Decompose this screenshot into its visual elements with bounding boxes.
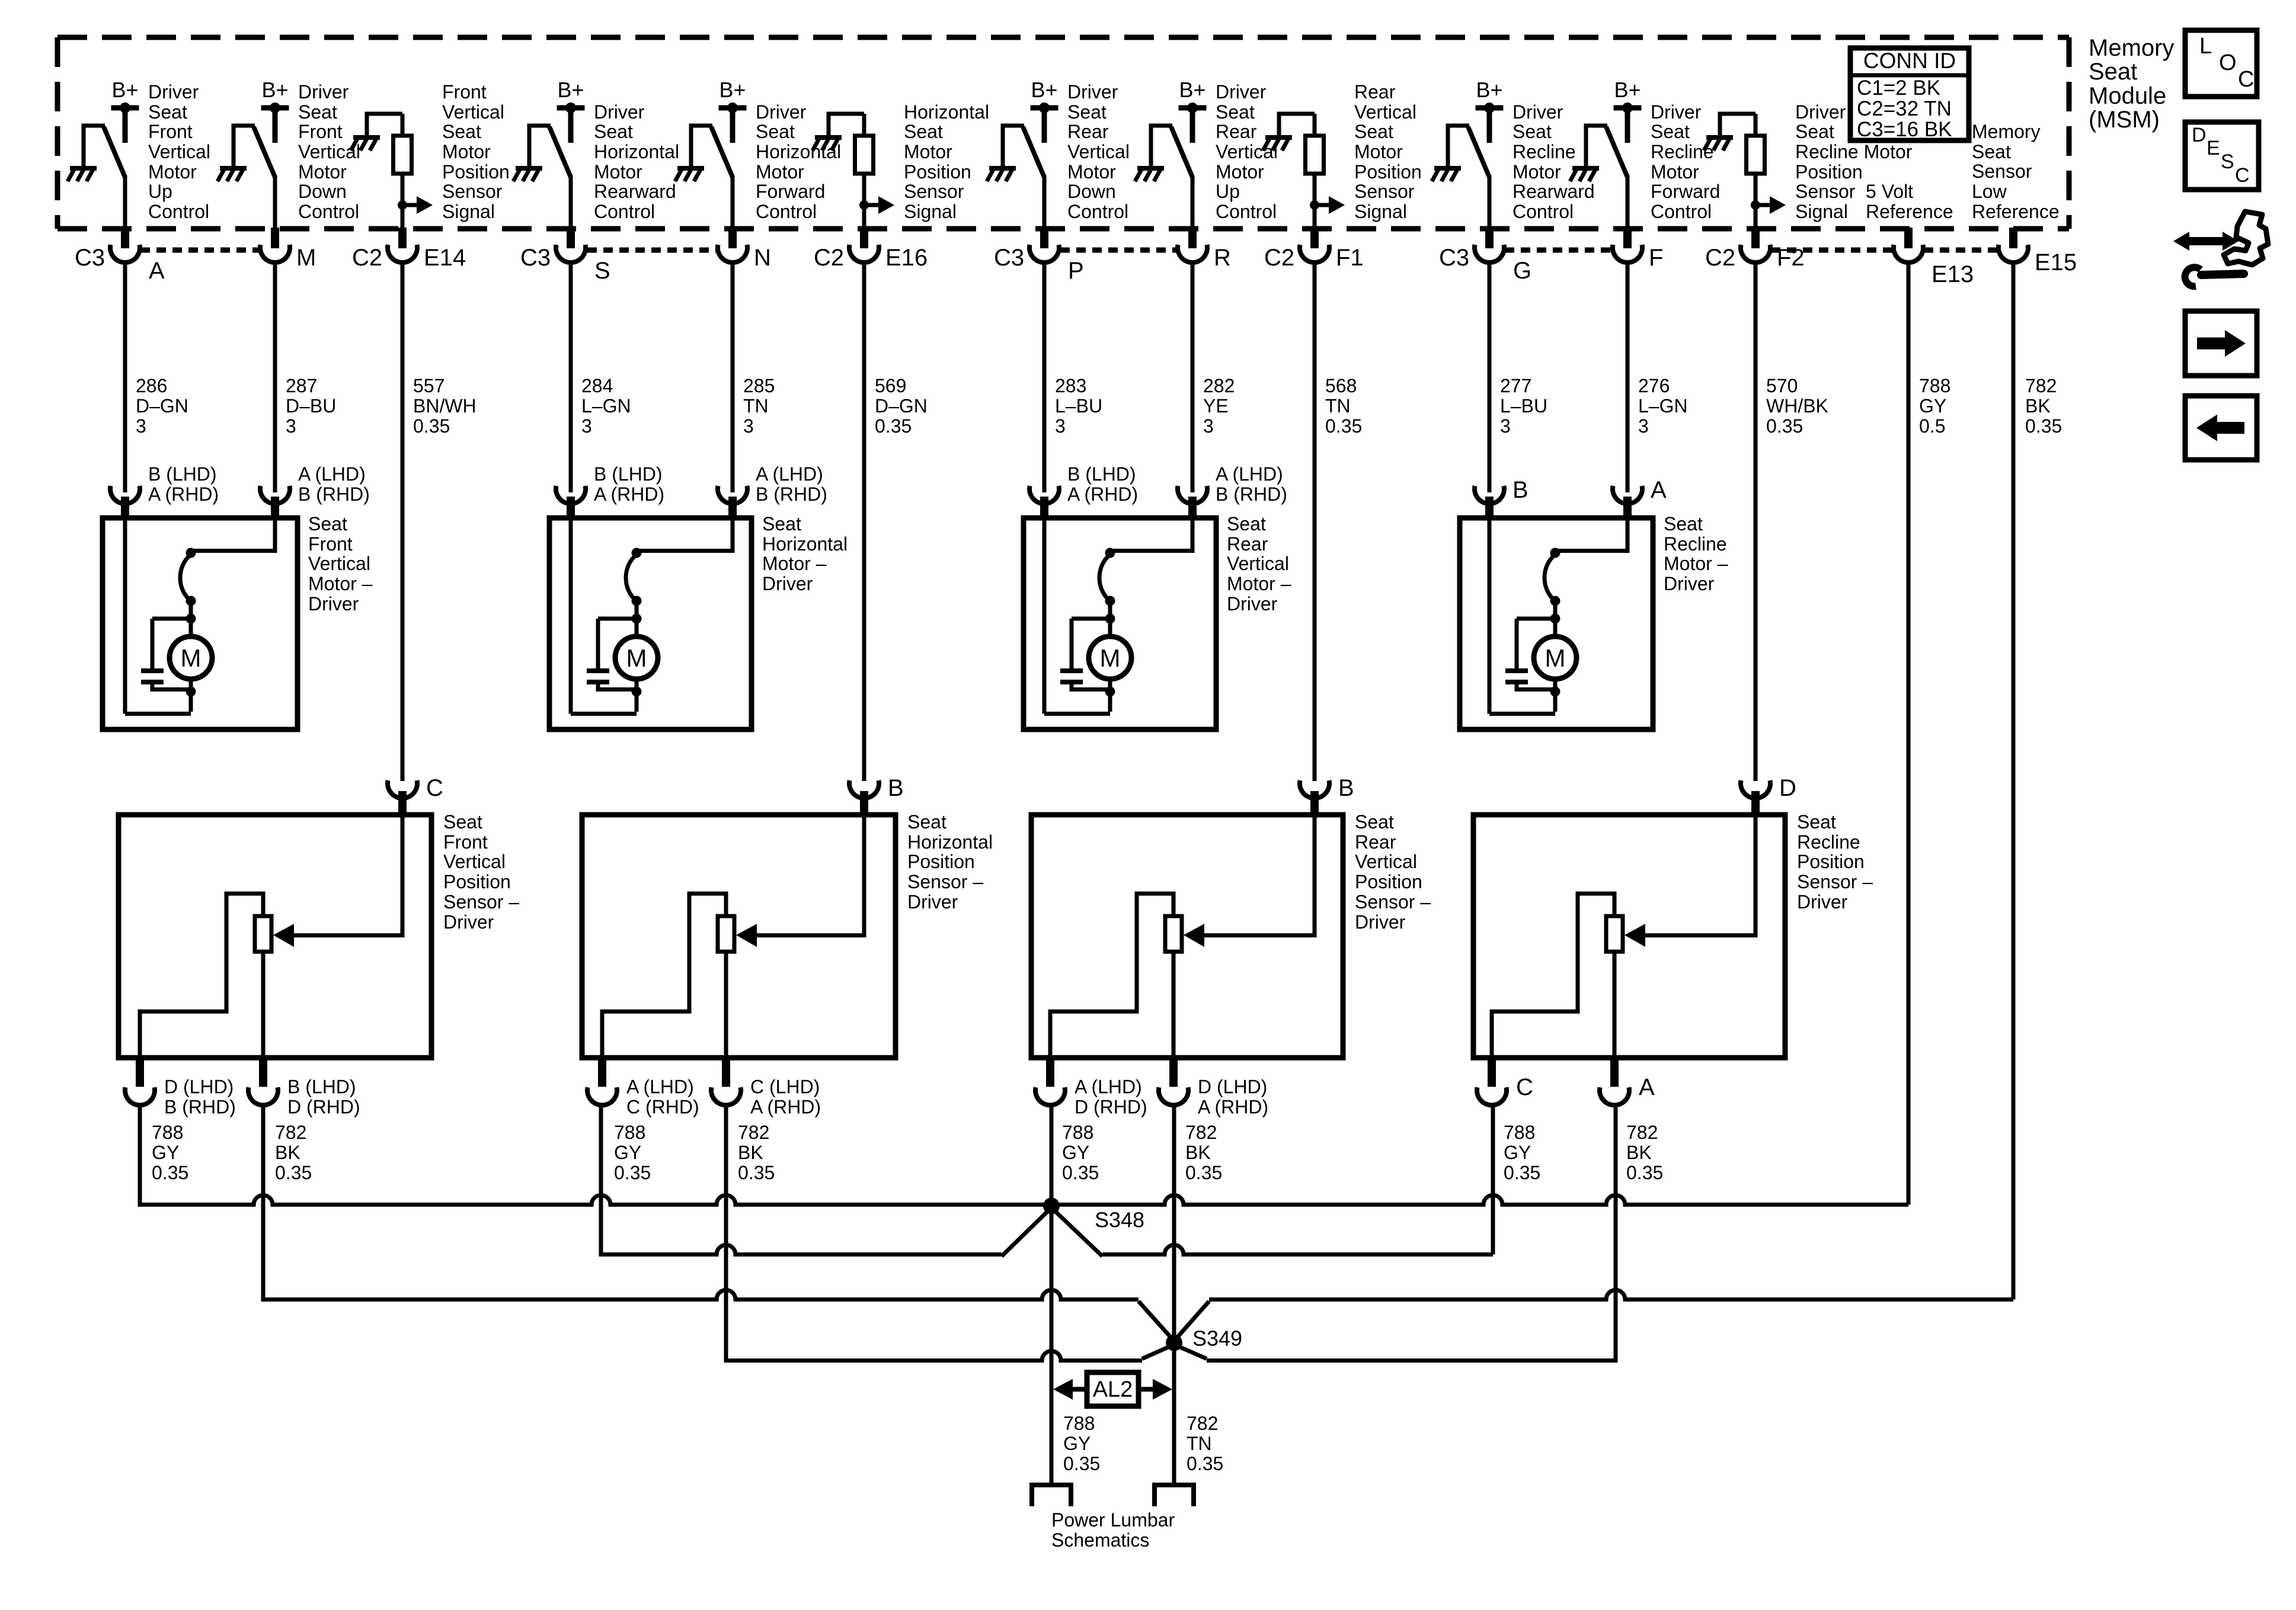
- svg-text:Down: Down: [298, 181, 347, 202]
- svg-text:Power Lumbar: Power Lumbar: [1051, 1509, 1175, 1531]
- connector pin E15: [2009, 228, 2017, 248]
- svg-text:Control: Control: [298, 201, 359, 222]
- capacitor (motor noise suppression, Seat Front Vertical Motor - Driver): [141, 668, 164, 673]
- svg-text:BK: BK: [738, 1142, 763, 1163]
- svg-text:B (LHD): B (LHD): [148, 463, 217, 485]
- svg-text:282: 282: [1203, 375, 1235, 396]
- svg-text:Driver: Driver: [1355, 911, 1406, 933]
- svg-text:3: 3: [286, 415, 296, 437]
- svg-text:Seat: Seat: [907, 811, 946, 833]
- svg-text:Driver: Driver: [1795, 101, 1846, 123]
- svg-text:M: M: [181, 644, 202, 672]
- svg-text:A (RHD): A (RHD): [750, 1096, 821, 1118]
- svg-text:Seat: Seat: [1354, 121, 1393, 142]
- inline connector pin B (LHD)/D (RHD) (sensor signal low): [259, 1058, 267, 1087]
- svg-text:Seat: Seat: [1795, 121, 1834, 142]
- svg-text:Driver: Driver: [1651, 101, 1702, 123]
- svg-text:570: 570: [1766, 375, 1798, 396]
- off-page connector (788 GY) Power Lumbar: [1032, 1485, 1071, 1506]
- wire group2 GY to bus: [599, 1103, 603, 1205]
- svg-text:Recline: Recline: [1797, 831, 1860, 853]
- svg-text:CONN ID: CONN ID: [1863, 49, 1956, 73]
- inline connector pin A (LHD)/B (RHD) (motor right): [718, 486, 747, 504]
- svg-text:B+: B+: [1614, 78, 1641, 102]
- svg-text:Signal: Signal: [904, 201, 957, 222]
- svg-text:Control: Control: [1216, 201, 1277, 222]
- ground for position sensor buffer (column F1): [1265, 135, 1292, 140]
- icon back arrow box: [2185, 396, 2257, 460]
- node sensor signal tap E16: [859, 200, 869, 210]
- svg-text:Motor: Motor: [1354, 141, 1403, 162]
- svg-text:B: B: [1512, 477, 1528, 503]
- svg-text:B+: B+: [1031, 78, 1057, 102]
- svg-text:0.35: 0.35: [413, 415, 450, 437]
- svg-text:Vertical: Vertical: [298, 141, 360, 162]
- inline connector pin A (LHD)/C (RHD) (sensor low ref): [598, 1058, 606, 1087]
- wire S349 vertical (group3 BK / 782 TN down): [1172, 1103, 1176, 1483]
- svg-text:Sensor: Sensor: [442, 181, 503, 202]
- svg-text:Sensor: Sensor: [1972, 161, 2032, 182]
- inline connector pin C (position sensor wiper): [388, 780, 417, 798]
- wire 285 TN 3 (pin N to motor): [731, 261, 735, 492]
- svg-text:Control: Control: [1651, 201, 1712, 222]
- svg-text:3: 3: [1055, 415, 1066, 437]
- svg-text:Seat: Seat: [298, 101, 337, 123]
- connector C3/C2 dotted pin row line: [140, 248, 1998, 253]
- svg-text:Front: Front: [298, 121, 343, 142]
- inline connector pin D (LHD)/B (RHD) (sensor low ref): [136, 1058, 144, 1087]
- wire group3 GY to splice S348: [1050, 1103, 1054, 1206]
- svg-text:Motor: Motor: [904, 141, 952, 162]
- wire 788 GY 0.5 (E13 to S348 bus): [1907, 261, 1911, 1205]
- svg-text:Horizontal: Horizontal: [756, 141, 841, 162]
- svg-text:3: 3: [1203, 415, 1214, 437]
- inline connector pin C (LHD)/A (RHD) (sensor signal low): [722, 1058, 730, 1087]
- wire resistor to connector F1: [1313, 174, 1317, 230]
- svg-text:Motor: Motor: [1651, 161, 1699, 183]
- svg-text:C2: C2: [814, 245, 844, 271]
- svg-text:0.35: 0.35: [1062, 1162, 1099, 1183]
- svg-text:B (RHD): B (RHD): [164, 1096, 236, 1118]
- wire BK branch group2 (to bus4 left): [724, 1103, 728, 1361]
- svg-text:782: 782: [275, 1122, 306, 1143]
- svg-text:(MSM): (MSM): [2089, 107, 2160, 133]
- wire BK bus3 (S349) left: [261, 1205, 266, 1299]
- motor box: Seat Rear Vertical Motor - Driver: [1024, 518, 1216, 729]
- position sensor box: Seat Horizontal Position Sensor - Driver: [582, 815, 896, 1058]
- svg-text:Seat: Seat: [1797, 811, 1836, 833]
- svg-text:Driver: Driver: [1664, 573, 1715, 594]
- switch contact with ground return (pin G): [1432, 126, 1489, 230]
- svg-text:D (LHD): D (LHD): [1198, 1076, 1267, 1097]
- svg-text:Motor –: Motor –: [762, 553, 827, 574]
- svg-text:0.35: 0.35: [1766, 415, 1803, 437]
- svg-text:Position: Position: [442, 161, 510, 183]
- svg-text:C2: C2: [352, 245, 382, 271]
- position sensor box: Seat Recline Position Sensor - Driver: [1473, 815, 1785, 1058]
- icon LOC box: [2185, 30, 2257, 97]
- inline connector pin A (LHD)/B (RHD) (motor right): [1178, 486, 1207, 504]
- connector AL2 (in-line): [1087, 1372, 1139, 1406]
- svg-text:M: M: [296, 245, 316, 271]
- svg-text:Seat: Seat: [2089, 59, 2137, 85]
- svg-text:GY: GY: [1504, 1142, 1531, 1163]
- svg-text:Signal: Signal: [1354, 201, 1407, 222]
- svg-text:Driver: Driver: [1512, 101, 1563, 123]
- capacitor (motor noise suppression, Seat Rear Vertical Motor - Driver): [1060, 668, 1083, 673]
- svg-text:L–GN: L–GN: [1638, 395, 1688, 417]
- svg-text:Vertical: Vertical: [1355, 851, 1417, 872]
- icon service tool (double arrow, part outline, wrench): [2173, 212, 2268, 286]
- svg-text:0.35: 0.35: [152, 1162, 188, 1183]
- svg-text:788: 788: [1504, 1122, 1535, 1143]
- off-page connector (782 TN) Power Lumbar: [1155, 1485, 1194, 1506]
- svg-text:P: P: [1068, 258, 1084, 284]
- svg-text:E16: E16: [885, 245, 928, 271]
- svg-text:C3: C3: [520, 245, 551, 271]
- svg-text:G: G: [1513, 258, 1531, 284]
- svg-text:BN/WH: BN/WH: [413, 395, 477, 417]
- svg-text:788: 788: [614, 1122, 645, 1143]
- svg-text:BK: BK: [275, 1142, 300, 1163]
- svg-text:Schematics: Schematics: [1051, 1529, 1149, 1551]
- svg-text:Rearward: Rearward: [594, 181, 676, 202]
- svg-text:Sensor –: Sensor –: [907, 871, 983, 892]
- inline connector pin D (position sensor wiper): [1741, 780, 1770, 798]
- connector pin F1 (C2): [1310, 228, 1319, 248]
- connector pin P (C3): [1040, 228, 1048, 248]
- wire GY bus (S348) horizontal: [140, 1195, 1908, 1205]
- svg-text:Vertical: Vertical: [1067, 141, 1130, 162]
- svg-text:Control: Control: [148, 201, 209, 222]
- CONN ID table box: [1850, 48, 1969, 140]
- svg-text:B+: B+: [1179, 78, 1205, 102]
- svg-text:D–BU: D–BU: [286, 395, 336, 417]
- connector pin G (C3): [1485, 228, 1494, 248]
- svg-text:E13: E13: [1932, 261, 1974, 287]
- svg-text:Seat: Seat: [1664, 513, 1703, 534]
- connector pin R: [1188, 228, 1197, 248]
- wire group1 GY to bus: [138, 1103, 142, 1207]
- svg-text:Sensor: Sensor: [1795, 181, 1856, 202]
- svg-text:276: 276: [1638, 375, 1670, 396]
- inline connector pin B (motor left): [1475, 486, 1504, 504]
- svg-text:Sensor –: Sensor –: [1797, 871, 1873, 892]
- svg-text:Horizontal: Horizontal: [907, 831, 993, 853]
- inline connector pin B (position sensor wiper): [849, 780, 879, 798]
- ground for position sensor buffer (column E14): [353, 135, 380, 140]
- motor box: Seat Recline Motor - Driver: [1460, 518, 1653, 729]
- svg-text:Seat: Seat: [904, 121, 943, 142]
- svg-text:782: 782: [2025, 375, 2057, 396]
- svg-text:Recline: Recline: [1651, 141, 1714, 162]
- svg-text:Vertical: Vertical: [308, 553, 370, 574]
- switch contact with ground return (pin P): [987, 126, 1044, 230]
- sensor signal arrow E14: [402, 203, 419, 207]
- node sensor signal tap F1: [1310, 200, 1319, 210]
- switch contact with ground return (pin N): [675, 126, 733, 230]
- svg-text:788: 788: [1063, 1413, 1095, 1434]
- svg-text:284: 284: [581, 375, 613, 396]
- svg-text:WH/BK: WH/BK: [1766, 395, 1828, 417]
- svg-text:285: 285: [743, 375, 775, 396]
- svg-text:Sensor –: Sensor –: [443, 891, 519, 913]
- svg-text:Position: Position: [1795, 161, 1863, 183]
- svg-text:0.35: 0.35: [1187, 1453, 1223, 1474]
- resistor (position sensor pull-up) column F1: [1306, 136, 1324, 174]
- svg-text:L–BU: L–BU: [1055, 395, 1102, 417]
- wire GY branch group2 (bus2 left): [599, 1205, 603, 1254]
- svg-text:Position: Position: [1355, 871, 1422, 892]
- svg-text:782: 782: [738, 1122, 769, 1143]
- svg-text:782: 782: [1185, 1122, 1217, 1143]
- svg-text:Seat: Seat: [442, 121, 481, 142]
- svg-text:A (LHD): A (LHD): [626, 1076, 694, 1097]
- svg-text:A: A: [1651, 477, 1667, 503]
- svg-text:E: E: [2207, 137, 2220, 159]
- svg-text:O: O: [2219, 50, 2237, 75]
- svg-text:M: M: [626, 644, 647, 672]
- svg-text:Driver: Driver: [443, 911, 494, 933]
- svg-text:Seat: Seat: [1067, 101, 1107, 123]
- svg-text:Front: Front: [148, 121, 193, 142]
- svg-text:286: 286: [136, 375, 167, 396]
- svg-text:S: S: [2221, 151, 2234, 173]
- wire 569 D–GN 0.35 (pin E16 to position sensor): [862, 261, 866, 781]
- wire resistor to connector E16: [862, 174, 866, 230]
- svg-text:B: B: [1338, 775, 1354, 801]
- connector pin M: [271, 228, 279, 248]
- svg-text:Driver: Driver: [298, 81, 349, 103]
- svg-text:Vertical: Vertical: [443, 851, 506, 872]
- svg-text:D–GN: D–GN: [875, 395, 928, 417]
- wire 276 L–GN 3 (pin F to motor): [1626, 261, 1630, 492]
- svg-text:Driver: Driver: [148, 81, 199, 103]
- svg-text:C2=32 TN: C2=32 TN: [1857, 97, 1952, 120]
- svg-text:D (LHD): D (LHD): [164, 1076, 234, 1097]
- svg-text:Seat: Seat: [1227, 513, 1266, 534]
- svg-text:Driver: Driver: [1227, 593, 1278, 614]
- svg-text:Rear: Rear: [1227, 533, 1268, 555]
- svg-text:C3: C3: [994, 245, 1024, 271]
- svg-text:Rear: Rear: [1355, 831, 1396, 853]
- potentiometer (position sensor, Seat Horizontal Position Sensor - Driver): [718, 916, 734, 952]
- svg-text:Driver: Driver: [1216, 81, 1267, 103]
- svg-text:Up: Up: [1216, 181, 1240, 202]
- svg-text:B (RHD): B (RHD): [756, 484, 827, 505]
- svg-text:Rearward: Rearward: [1512, 181, 1595, 202]
- node sensor signal tap E14: [398, 200, 407, 210]
- svg-text:Front: Front: [443, 831, 488, 853]
- svg-text:A (LHD): A (LHD): [1075, 1076, 1142, 1097]
- svg-text:L–GN: L–GN: [581, 395, 631, 417]
- svg-text:Recline Motor: Recline Motor: [1795, 141, 1913, 162]
- svg-text:B (LHD): B (LHD): [287, 1076, 356, 1097]
- svg-text:Driver: Driver: [756, 101, 807, 123]
- svg-text:M: M: [1100, 644, 1121, 672]
- inline connector pin B (LHD)/A (RHD) (motor left): [556, 486, 586, 504]
- svg-text:F2: F2: [1777, 245, 1805, 271]
- svg-text:Seat: Seat: [1651, 121, 1690, 142]
- svg-text:Recline: Recline: [1664, 533, 1727, 555]
- connector pin F2 (C2): [1751, 228, 1760, 248]
- connector pin A (C3): [121, 228, 129, 248]
- inline connector pin B (LHD)/A (RHD) (motor left): [110, 486, 140, 504]
- svg-text:GY: GY: [1919, 395, 1946, 417]
- capacitor (motor noise suppression, Seat Recline Motor - Driver): [1505, 668, 1528, 673]
- svg-text:B+: B+: [111, 78, 138, 102]
- svg-text:0.35: 0.35: [738, 1162, 775, 1183]
- inline connector pin A (LHD)/B (RHD) (motor right): [260, 486, 290, 504]
- svg-text:782: 782: [1187, 1413, 1218, 1434]
- splice S349: [1166, 1334, 1182, 1351]
- svg-text:Seat: Seat: [594, 121, 633, 142]
- svg-text:Seat: Seat: [308, 513, 347, 534]
- sensor signal arrow E16: [864, 203, 881, 207]
- svg-text:F: F: [1649, 245, 1663, 271]
- svg-text:Motor: Motor: [1067, 161, 1116, 183]
- wire BK branch group4 (bus4 right): [1174, 1345, 1207, 1359]
- svg-text:GY: GY: [614, 1142, 641, 1163]
- position sensor box: Seat Front Vertical Position Sensor - Driver: [119, 815, 431, 1058]
- svg-text:Forward: Forward: [1651, 181, 1720, 202]
- resistor (position sensor pull-up) column E16: [855, 136, 874, 174]
- svg-text:B (RHD): B (RHD): [298, 484, 370, 505]
- motor box: Seat Horizontal Motor - Driver: [549, 518, 752, 729]
- svg-text:3: 3: [1500, 415, 1511, 437]
- svg-text:C: C: [1516, 1074, 1533, 1100]
- svg-text:Driver: Driver: [594, 101, 645, 123]
- ground for position sensor buffer (column E16): [815, 135, 842, 140]
- svg-text:3: 3: [581, 415, 592, 437]
- svg-text:A (RHD): A (RHD): [594, 484, 664, 505]
- wire 284 L–GN 3 (pin S to motor): [569, 261, 573, 492]
- resistor (position sensor pull-up) column E14: [394, 136, 412, 174]
- svg-text:C (LHD): C (LHD): [750, 1076, 820, 1097]
- svg-text:B: B: [888, 775, 904, 801]
- wire 570 WH/BK 0.35 (pin F2 to position sensor): [1754, 261, 1758, 781]
- svg-text:Seat: Seat: [1355, 811, 1394, 833]
- svg-text:Motor: Motor: [148, 161, 197, 183]
- svg-text:Sensor –: Sensor –: [1355, 891, 1431, 913]
- wire group4 GY to bus: [1491, 1103, 1495, 1206]
- icon DESC box: [2185, 122, 2259, 190]
- svg-text:A (LHD): A (LHD): [1216, 463, 1283, 485]
- svg-text:Vertical: Vertical: [442, 101, 504, 123]
- svg-text:Reference: Reference: [1866, 201, 1953, 222]
- svg-text:Sensor: Sensor: [904, 181, 964, 202]
- svg-text:Position: Position: [904, 161, 971, 183]
- svg-text:A (LHD): A (LHD): [756, 463, 823, 485]
- svg-text:Forward: Forward: [756, 181, 825, 202]
- svg-text:0.35: 0.35: [614, 1162, 651, 1183]
- svg-text:GY: GY: [1063, 1433, 1091, 1454]
- svg-text:BK: BK: [2025, 395, 2051, 417]
- svg-text:568: 568: [1325, 375, 1357, 396]
- Memory Seat Module (MSM) dashed boundary box: [57, 37, 2069, 229]
- svg-text:E14: E14: [424, 245, 466, 271]
- svg-text:Rear: Rear: [1067, 121, 1109, 142]
- wire 557 BN/WH 0.35 (pin E14 to position sensor): [401, 261, 405, 781]
- switch contact with ground return (pin S): [513, 126, 571, 230]
- svg-text:0.35: 0.35: [1325, 415, 1362, 437]
- inline connector pin B (LHD)/A (RHD) (motor left): [1029, 486, 1059, 504]
- svg-text:Memory: Memory: [2089, 35, 2174, 61]
- svg-text:0.35: 0.35: [875, 415, 912, 437]
- svg-text:Front: Front: [308, 533, 353, 555]
- svg-text:Control: Control: [1067, 201, 1128, 222]
- svg-text:Signal: Signal: [442, 201, 495, 222]
- wire 782 BK 0.35 (E15 to S349 bus): [2012, 261, 2016, 1299]
- svg-text:Motor –: Motor –: [1664, 553, 1728, 574]
- svg-text:A (RHD): A (RHD): [1067, 484, 1138, 505]
- svg-text:B+: B+: [1476, 78, 1502, 102]
- svg-text:0.35: 0.35: [1626, 1162, 1663, 1183]
- svg-text:A: A: [1639, 1074, 1655, 1100]
- svg-text:Motor: Motor: [298, 161, 347, 183]
- svg-text:287: 287: [286, 375, 317, 396]
- wire 568 TN 0.35 (pin F1 to position sensor): [1313, 261, 1317, 781]
- svg-text:Reference: Reference: [1972, 201, 2060, 222]
- svg-text:B (LHD): B (LHD): [594, 463, 663, 485]
- wire resistor to connector F2: [1754, 174, 1758, 230]
- svg-text:Control: Control: [594, 201, 655, 222]
- wire 282 YE 3 (pin R to motor): [1191, 261, 1195, 492]
- svg-text:283: 283: [1055, 375, 1086, 396]
- potentiometer (position sensor, Seat Front Vertical Position Sensor - Driver): [255, 916, 271, 952]
- svg-text:Module: Module: [2089, 83, 2166, 109]
- potentiometer (position sensor, Seat Rear Vertical Position Sensor - Driver): [1165, 916, 1182, 952]
- wire group1 BK to bus: [261, 1103, 266, 1205]
- potentiometer (position sensor, Seat Recline Position Sensor - Driver): [1606, 916, 1623, 952]
- svg-text:0.35: 0.35: [1185, 1162, 1222, 1183]
- svg-text:Motor: Motor: [756, 161, 804, 183]
- position sensor box: Seat Rear Vertical Position Sensor - Driver: [1031, 815, 1343, 1058]
- svg-text:788: 788: [1919, 375, 1950, 396]
- svg-text:Driver: Driver: [308, 593, 359, 614]
- svg-text:L–BU: L–BU: [1500, 395, 1547, 417]
- svg-text:YE: YE: [1203, 395, 1229, 417]
- svg-text:Control: Control: [756, 201, 817, 222]
- svg-text:Vertical: Vertical: [148, 141, 210, 162]
- svg-text:Position: Position: [443, 871, 511, 892]
- svg-text:A: A: [149, 258, 165, 284]
- svg-text:Seat: Seat: [1512, 121, 1552, 142]
- sensor signal arrow F2: [1755, 203, 1772, 207]
- svg-text:C2: C2: [1264, 245, 1294, 271]
- svg-text:Motor: Motor: [594, 161, 642, 183]
- svg-text:Memory: Memory: [1972, 121, 2041, 142]
- svg-text:Control: Control: [1512, 201, 1574, 222]
- svg-text:B (LHD): B (LHD): [1067, 463, 1136, 485]
- svg-text:Motor –: Motor –: [1227, 573, 1291, 594]
- wire GY branch group4 (bus2 right): [1051, 1208, 1102, 1256]
- svg-text:A (RHD): A (RHD): [1198, 1096, 1268, 1118]
- splice S348: [1043, 1198, 1060, 1214]
- svg-text:Driver: Driver: [762, 573, 813, 594]
- motor M (Seat Recline Motor - Driver): [1534, 636, 1576, 679]
- svg-text:0.35: 0.35: [2025, 415, 2062, 437]
- svg-text:C3: C3: [75, 245, 105, 271]
- svg-text:Seat: Seat: [756, 121, 795, 142]
- svg-text:Seat: Seat: [443, 811, 482, 833]
- icon forward arrow box: [2185, 311, 2257, 376]
- svg-text:TN: TN: [1187, 1433, 1212, 1454]
- svg-text:C3=16 BK: C3=16 BK: [1857, 118, 1952, 141]
- wire S348 vertical (group3 GY / 788 GY down to AL2): [1050, 1103, 1054, 1483]
- svg-text:C: C: [426, 775, 443, 801]
- connector pin S (C3): [567, 228, 575, 248]
